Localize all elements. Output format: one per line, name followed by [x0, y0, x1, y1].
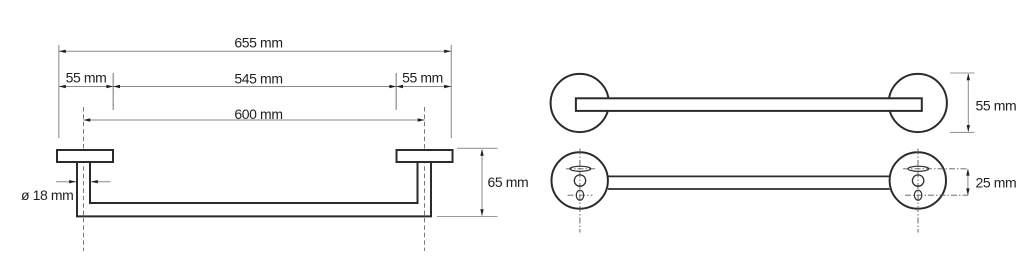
svg-text:545 mm: 545 mm [234, 70, 282, 86]
arrow 600 left [84, 118, 91, 121]
arrow 545 right / 55R left pair [389, 85, 396, 88]
left circle centerline vertical [579, 149, 581, 233]
dim 55 mm extension bottom [950, 131, 975, 133]
right slot [908, 166, 929, 171]
right oval hole [914, 190, 921, 200]
extension line left (655/55 dims) [58, 45, 60, 138]
arrow 25 top [966, 169, 969, 176]
right circle centerline through slot (extends to dim) [903, 168, 968, 170]
part outline: left wall plate [57, 150, 113, 162]
rail bar bottom line (front view) [608, 188, 890, 190]
arrow 655 left [59, 50, 66, 53]
arrow 600 right [418, 118, 425, 121]
dim line 600 mm [84, 119, 425, 121]
part outline: right wall plate [397, 150, 453, 162]
left backplate circle (front view) [552, 152, 608, 208]
svg-text:ø 18 mm: ø 18 mm [21, 187, 73, 203]
dim line 55/545/55 [59, 86, 451, 88]
arrow o18 left (points right at stem) [69, 180, 76, 183]
extension line 65mm top [457, 147, 498, 149]
svg-text:55 mm: 55 mm [66, 69, 107, 85]
left backplate circle (top view) [551, 74, 609, 132]
dashed centerline right stem [424, 107, 426, 251]
rail bar top line (front view) [608, 175, 890, 177]
dim line 25 mm vertical [967, 169, 969, 194]
svg-text:55 mm: 55 mm [976, 97, 1017, 113]
dim line 65 mm [481, 150, 483, 216]
right circle centerline through oval (extends to dim) [905, 194, 968, 196]
arrowheads left view [59, 50, 484, 216]
tick 545 right [395, 73, 397, 110]
part outline: rail inner path [90, 163, 418, 204]
svg-text:600 mm: 600 mm [234, 106, 282, 122]
svg-text:25 mm: 25 mm [976, 175, 1017, 191]
dim line o18 left arrow shaft [56, 181, 76, 183]
tick 545 left [112, 73, 114, 110]
arrow 55 bottom [967, 125, 970, 132]
svg-text:55 mm: 55 mm [402, 69, 443, 85]
dim line 655 mm [59, 50, 451, 52]
arrow 65 bottom [480, 209, 483, 216]
part outline: rail outer path [77, 163, 431, 217]
arrow 55 top [967, 74, 970, 81]
arrow 55L right / 545 left pair [106, 85, 113, 88]
arrow 655 right [444, 50, 451, 53]
arrow 55R right [444, 85, 451, 88]
right circle centerline vertical [917, 149, 919, 233]
dim 55 mm extension top [950, 72, 975, 74]
right backplate circle (front view) [890, 152, 946, 208]
left slot [570, 166, 591, 171]
left screw hole [574, 175, 585, 186]
left circle centerline through slot [566, 168, 595, 170]
extension line right (655/55 dims) [450, 45, 452, 138]
rail bar (top view) [576, 98, 922, 111]
dim line 55 mm vertical [967, 74, 969, 131]
arrow 65 top [480, 149, 483, 156]
svg-text:655 mm: 655 mm [234, 34, 282, 50]
arrow 55L left [59, 85, 66, 88]
extension line 65mm bottom [437, 216, 498, 218]
dashed centerline left stem [83, 107, 85, 251]
dim line o18 right arrow shaft [91, 181, 111, 183]
arrow o18 right (points left at stem) [91, 180, 98, 183]
arrow 25 bottom [966, 188, 969, 195]
left oval hole [576, 190, 583, 200]
right screw hole [912, 175, 923, 186]
svg-text:65 mm: 65 mm [488, 174, 529, 190]
left circle centerline through oval [568, 194, 593, 196]
right backplate circle (top view) [889, 74, 947, 132]
